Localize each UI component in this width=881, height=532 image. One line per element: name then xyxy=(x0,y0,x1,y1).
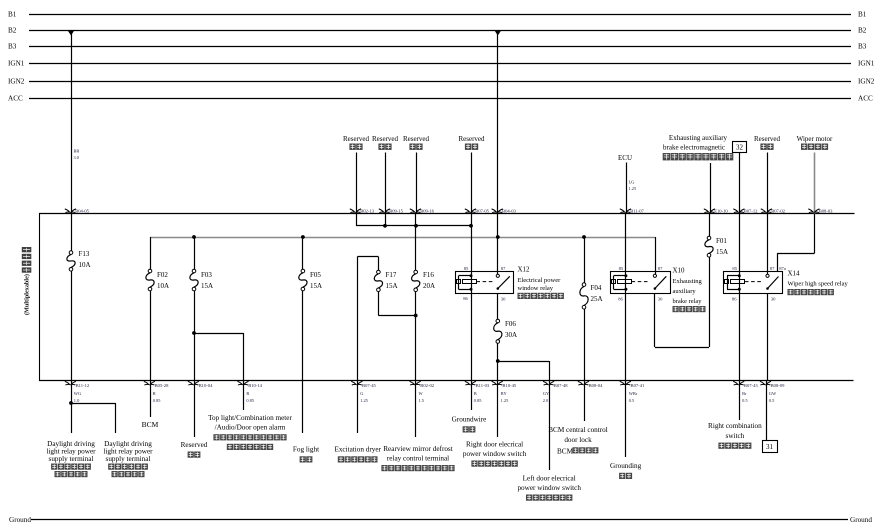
svg-text:IGN1: IGN1 xyxy=(8,59,25,67)
svg-text:30: 30 xyxy=(771,296,776,301)
svg-text:0.5: 0.5 xyxy=(629,398,635,403)
svg-text:B08-09: B08-09 xyxy=(771,383,785,388)
svg-text:32: 32 xyxy=(736,144,744,152)
svg-text:brake relay: brake relay xyxy=(673,298,703,305)
svg-text:Exhausting: Exhausting xyxy=(673,278,703,285)
svg-text:F05: F05 xyxy=(310,271,321,279)
svg-text:86: 86 xyxy=(732,296,737,301)
svg-text:IGN2: IGN2 xyxy=(8,77,25,85)
svg-text:LG: LG xyxy=(629,180,636,185)
svg-text:87: 87 xyxy=(658,266,663,271)
svg-text:/Audio/Door open alarm: /Audio/Door open alarm xyxy=(215,424,286,432)
svg-text:B07-41: B07-41 xyxy=(631,383,645,388)
svg-text:10A: 10A xyxy=(79,261,91,269)
svg-text:F03: F03 xyxy=(201,271,212,279)
svg-text:F06: F06 xyxy=(505,320,516,328)
svg-text:auxiliary: auxiliary xyxy=(673,288,697,295)
svg-text:B04-05: B04-05 xyxy=(75,208,89,213)
svg-text:IGN2: IGN2 xyxy=(858,77,875,85)
svg-text:87: 87 xyxy=(501,266,506,271)
svg-text:31: 31 xyxy=(766,443,774,451)
svg-text:door lock: door lock xyxy=(564,436,592,444)
svg-text:15A: 15A xyxy=(201,282,213,290)
svg-text:1.0: 1.0 xyxy=(74,398,80,403)
svg-text:B02-13: B02-13 xyxy=(360,208,374,213)
svg-text:3.0: 3.0 xyxy=(74,155,80,160)
svg-text:Reserved: Reserved xyxy=(403,135,430,143)
svg-text:B05-28: B05-28 xyxy=(155,383,169,388)
svg-text:B11-12: B11-12 xyxy=(76,383,90,388)
svg-text:F17: F17 xyxy=(386,271,397,279)
svg-text:B1: B1 xyxy=(8,10,17,18)
svg-text:0.5: 0.5 xyxy=(742,398,748,403)
svg-text:B2: B2 xyxy=(858,26,867,34)
svg-text:Grounding: Grounding xyxy=(610,462,642,470)
svg-text:86: 86 xyxy=(618,296,623,301)
svg-text:B07-43: B07-43 xyxy=(744,383,758,388)
svg-text:Wiper high speed relay: Wiper high speed relay xyxy=(788,281,849,288)
svg-text:Excitation dryer: Excitation dryer xyxy=(334,446,381,454)
svg-text:Reserved: Reserved xyxy=(372,135,399,143)
svg-text:Rearview mirror defrost: Rearview mirror defrost xyxy=(383,445,452,453)
svg-text:30: 30 xyxy=(658,296,663,301)
svg-text:Left door elecrical: Left door elecrical xyxy=(523,475,576,483)
svg-text:1.25: 1.25 xyxy=(629,186,637,191)
svg-text:1.25: 1.25 xyxy=(501,398,509,403)
svg-text:power window switch: power window switch xyxy=(517,484,581,492)
svg-text:E10-10: E10-10 xyxy=(714,208,728,213)
svg-text:85: 85 xyxy=(464,266,469,271)
svg-text:87: 87 xyxy=(770,266,775,271)
svg-text:B07-12: B07-12 xyxy=(744,208,758,213)
svg-text:supply terminal: supply terminal xyxy=(49,455,94,463)
svg-text:0.5: 0.5 xyxy=(769,398,775,403)
svg-text:0.85: 0.85 xyxy=(474,398,482,403)
svg-text:B07-45: B07-45 xyxy=(362,383,376,388)
svg-text:BR: BR xyxy=(74,149,80,154)
svg-text:15A: 15A xyxy=(386,282,398,290)
svg-text:B10-14: B10-14 xyxy=(248,383,262,388)
svg-text:Exhausting auxiliary: Exhausting auxiliary xyxy=(669,134,728,142)
svg-text:Reserved: Reserved xyxy=(343,135,370,143)
svg-text:(Multiplexable): (Multiplexable) xyxy=(24,274,31,315)
svg-text:B07-05: B07-05 xyxy=(475,208,489,213)
svg-text:30: 30 xyxy=(501,296,506,301)
svg-text:Br: Br xyxy=(742,391,747,396)
svg-text:GY: GY xyxy=(543,391,550,396)
svg-text:BCM central control: BCM central control xyxy=(548,426,607,434)
svg-text:Groundwire: Groundwire xyxy=(452,416,487,424)
svg-text:F02: F02 xyxy=(157,271,168,279)
svg-text:B1: B1 xyxy=(858,10,867,18)
svg-text:Right combination: Right combination xyxy=(708,422,762,430)
svg-text:Reserved: Reserved xyxy=(458,135,485,143)
svg-text:B3: B3 xyxy=(858,42,867,50)
svg-text:B: B xyxy=(474,391,477,396)
svg-text:X14: X14 xyxy=(788,270,801,278)
svg-text:Electrical power: Electrical power xyxy=(518,277,562,284)
svg-text:X10: X10 xyxy=(673,267,686,275)
svg-text:Wiper motor: Wiper motor xyxy=(797,135,833,143)
svg-text:B11-07: B11-07 xyxy=(630,208,644,213)
svg-text:87a: 87a xyxy=(779,266,786,271)
svg-text:B09-15: B09-15 xyxy=(389,208,403,213)
svg-text:B02-02: B02-02 xyxy=(420,383,434,388)
svg-text:10A: 10A xyxy=(157,282,169,290)
svg-text:20A: 20A xyxy=(423,282,435,290)
svg-text:power window switch: power window switch xyxy=(463,450,527,458)
svg-text:BY: BY xyxy=(501,391,508,396)
svg-text:IGN1: IGN1 xyxy=(858,59,875,67)
svg-text:X12: X12 xyxy=(518,266,531,274)
svg-text:15A: 15A xyxy=(716,248,728,256)
svg-text:B3: B3 xyxy=(8,42,17,50)
svg-text:B10-04: B10-04 xyxy=(199,383,213,388)
svg-text:1.25: 1.25 xyxy=(360,398,368,403)
svg-text:brake electromagnetic: brake electromagnetic xyxy=(663,144,725,152)
svg-text:ACC: ACC xyxy=(8,94,23,102)
svg-text:B11-03: B11-03 xyxy=(476,383,490,388)
svg-text:R: R xyxy=(153,391,156,396)
svg-text:Right door elecrical: Right door elecrical xyxy=(466,441,523,449)
svg-text:R: R xyxy=(246,391,249,396)
svg-text:85: 85 xyxy=(732,266,737,271)
svg-text:85: 85 xyxy=(619,266,624,271)
svg-text:B08-04: B08-04 xyxy=(589,383,603,388)
svg-text:0.85: 0.85 xyxy=(153,398,161,403)
svg-text:Ground: Ground xyxy=(850,516,872,524)
svg-text:WG: WG xyxy=(74,391,82,396)
svg-text:Fog light: Fog light xyxy=(293,446,319,454)
svg-text:supply terminal: supply terminal xyxy=(106,455,151,463)
svg-text:2.0: 2.0 xyxy=(543,398,549,403)
svg-text:B10-45: B10-45 xyxy=(502,383,516,388)
svg-text:B2: B2 xyxy=(8,26,17,34)
svg-text:Reserved: Reserved xyxy=(181,441,208,449)
svg-text:0.85: 0.85 xyxy=(246,398,254,403)
svg-text:Reserved: Reserved xyxy=(754,135,781,143)
svg-text:GW: GW xyxy=(769,391,777,396)
svg-text:relay control terminal: relay control terminal xyxy=(387,455,449,463)
svg-text:86: 86 xyxy=(463,296,468,301)
svg-text:1.5: 1.5 xyxy=(419,398,425,403)
svg-text:B08-03: B08-03 xyxy=(819,208,833,213)
svg-text:F01: F01 xyxy=(716,237,727,245)
svg-text:B04-03: B04-03 xyxy=(502,208,516,213)
svg-text:30A: 30A xyxy=(505,331,517,339)
svg-text:Ground: Ground xyxy=(9,516,31,524)
svg-text:BCM: BCM xyxy=(142,420,159,429)
svg-text:25A: 25A xyxy=(591,295,603,303)
svg-text:BCM: BCM xyxy=(557,448,574,456)
svg-text:15A: 15A xyxy=(310,282,322,290)
svg-text:B07-48: B07-48 xyxy=(554,383,568,388)
svg-text:switch: switch xyxy=(726,432,745,440)
svg-text:ACC: ACC xyxy=(858,94,873,102)
svg-text:B09-16: B09-16 xyxy=(420,208,434,213)
svg-text:Top light/Combination meter: Top light/Combination meter xyxy=(208,414,292,422)
svg-text:F04: F04 xyxy=(591,284,602,292)
svg-text:B07-02: B07-02 xyxy=(771,208,785,213)
svg-text:window relay: window relay xyxy=(518,285,554,292)
svg-text:F16: F16 xyxy=(423,271,434,279)
svg-text:ECU: ECU xyxy=(618,154,632,162)
svg-text:WBr: WBr xyxy=(629,391,638,396)
svg-text:F13: F13 xyxy=(79,250,90,258)
